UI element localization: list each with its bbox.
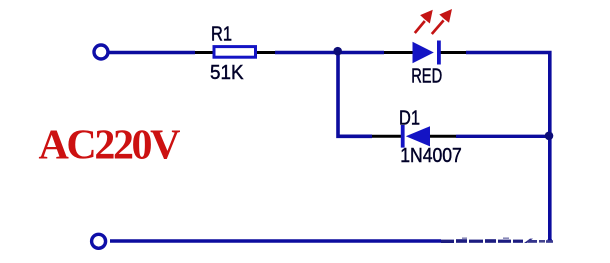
svg-text:51K: 51K	[210, 62, 244, 84]
wire black lead left of D1	[372, 135, 402, 138]
node A junction dot	[333, 47, 342, 56]
wire black lead left of LED	[384, 51, 413, 54]
svg-text:1N4007: 1N4007	[400, 145, 462, 167]
wire blue from R1 lead to node A	[275, 51, 338, 54]
svg-text:D1: D1	[399, 107, 420, 129]
resistor R1	[214, 47, 256, 58]
wire black lead right of R1	[255, 51, 275, 54]
diode D1	[401, 125, 430, 148]
wire black lead right of LED	[440, 51, 466, 54]
wire top-left from terminal to R1 lead	[109, 51, 195, 54]
wire blue from node A toward LED	[338, 51, 384, 54]
node B junction dot	[545, 132, 554, 141]
terminal T1 top-left	[94, 45, 108, 59]
LED RED with light arrows	[413, 10, 452, 64]
wire branch from node A down to D1 row	[338, 53, 372, 137]
wire blue top-right corner going down	[466, 53, 550, 242]
wire blue from D1 to node B	[456, 135, 550, 138]
svg-text:R1: R1	[211, 24, 232, 46]
svg-text:RED: RED	[411, 65, 442, 87]
wire bottom from terminal to right corner	[110, 239, 552, 242]
wire black lead left of R1	[195, 51, 214, 54]
wire black lead right of D1	[430, 135, 456, 138]
svg-text:AC220V: AC220V	[39, 123, 181, 169]
terminal T2 bottom-left	[92, 234, 106, 248]
